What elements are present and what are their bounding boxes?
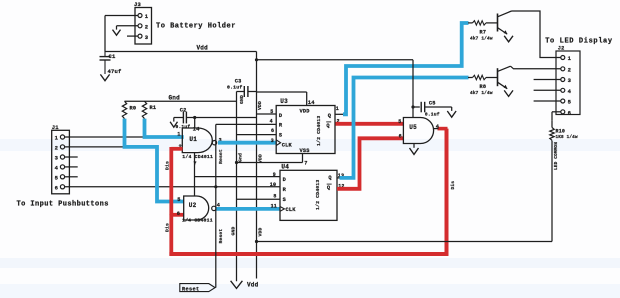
wire J3 pin3 stub <box>127 35 138 37</box>
wire U4 Q stub <box>337 177 341 179</box>
connector J3 <box>134 1 152 44</box>
wire J1 pin5 stub <box>65 176 78 178</box>
pin 14 label U3 <box>308 99 316 106</box>
wire Vdd to U5 top <box>412 60 414 118</box>
svg-text:3: 3 <box>568 77 572 84</box>
svg-text:D: D <box>279 113 282 119</box>
svg-text:VDD: VDD <box>257 101 263 110</box>
svg-text:R1: R1 <box>150 105 157 111</box>
svg-text:2: 2 <box>568 67 572 74</box>
wire J1 pin3 stub <box>65 156 78 158</box>
net label VDD rotated mid <box>258 154 264 163</box>
svg-text:Gnd: Gnd <box>169 95 181 102</box>
svg-text:5: 5 <box>177 197 180 203</box>
pin 10 label U4 R <box>270 182 276 188</box>
wire red Dis vertical <box>169 147 173 256</box>
wire U1 pin14 <box>193 118 201 133</box>
svg-text:0.1uf: 0.1uf <box>227 85 242 91</box>
net label Dis rotated at U5 output <box>450 181 456 190</box>
svg-text:CLK: CLK <box>286 207 297 213</box>
svg-text:11: 11 <box>271 204 277 210</box>
svg-text:To Input Pushbuttons: To Input Pushbuttons <box>17 201 109 209</box>
svg-text:R7: R7 <box>480 29 487 35</box>
svg-text:VSS: VSS <box>300 148 311 154</box>
resistor R7 <box>468 21 498 42</box>
junction C2 U1pin14 <box>193 116 196 119</box>
wire VDD vertical <box>256 52 258 279</box>
ground below U5 <box>410 148 419 154</box>
svg-text:Dis: Dis <box>165 161 171 170</box>
svg-text:Dis: Dis <box>165 223 171 232</box>
svg-text:Reset: Reset <box>182 286 200 292</box>
svg-text:1/2 CD4013: 1/2 CD4013 <box>315 180 321 210</box>
wire LED COMMON <box>257 141 553 242</box>
label To Input Pushbuttons <box>17 201 109 209</box>
wire cyan R0 to U2 input 5 <box>125 119 184 202</box>
pin 13 label U4 Q <box>338 173 344 179</box>
svg-text:To Battery Holder: To Battery Holder <box>156 23 236 31</box>
resistor R8 <box>468 75 498 96</box>
svg-text:4: 4 <box>568 88 572 95</box>
pin 9 label U4 D <box>273 172 276 178</box>
wire red Dis U2 input6 <box>171 213 183 217</box>
svg-text:9: 9 <box>273 172 276 178</box>
svg-text:U4: U4 <box>281 163 289 170</box>
wire U4 pin9 run <box>195 176 281 178</box>
wire VDD branch to U5 <box>257 59 414 61</box>
svg-text:To LED Display: To LED Display <box>545 37 613 45</box>
net label LED COMMON rotated <box>553 142 559 170</box>
wire cyan U1 out to U3 CLK <box>218 141 276 145</box>
junction Vdd LED COMMON <box>255 240 258 243</box>
ground at C2 <box>170 122 177 127</box>
svg-text:Gnd: Gnd <box>238 153 244 162</box>
svg-text:J3: J3 <box>134 1 142 8</box>
svg-text:1: 1 <box>568 55 572 62</box>
flip-flop U3 CD4013 <box>276 98 335 154</box>
label To LED Display <box>545 37 613 45</box>
svg-text:1: 1 <box>177 131 180 137</box>
svg-text:D: D <box>283 177 286 183</box>
wire cyan U3 Q to R7 <box>343 23 469 114</box>
transistor Q2 <box>498 66 511 89</box>
net label GND rotated low <box>231 227 237 236</box>
svg-text:1: 1 <box>145 13 149 20</box>
wire U3 S pin6 stub <box>237 128 277 135</box>
svg-text:U3: U3 <box>280 98 288 105</box>
resistor R10 <box>550 121 578 141</box>
resistor R1 <box>142 101 156 118</box>
transistor Q1 <box>498 11 512 34</box>
wire J2 pin4 stub <box>534 89 561 91</box>
ground at Q2 emitter <box>504 90 513 96</box>
resistor R0 <box>122 101 136 118</box>
svg-text:Vdd: Vdd <box>197 45 209 52</box>
svg-text:R10: R10 <box>556 129 566 135</box>
capacitor C2 <box>174 107 257 129</box>
wire cyan R1 to U1 input 1 <box>145 119 184 137</box>
wire J1 pin1 to R1 <box>65 136 145 138</box>
svg-text:3: 3 <box>145 34 149 41</box>
svg-text:6: 6 <box>271 128 274 134</box>
svg-text:Reset: Reset <box>218 149 224 164</box>
svg-text:3: 3 <box>271 138 274 144</box>
svg-text:R0: R0 <box>130 105 137 111</box>
svg-text:14: 14 <box>308 99 316 106</box>
wire red U4 Qbar to U5 input6 <box>337 138 403 189</box>
wire red U3 Qbar to U5 input5 <box>336 122 404 126</box>
svg-text:6: 6 <box>399 134 402 140</box>
svg-text:2: 2 <box>55 145 59 152</box>
wire Gnd rail <box>125 100 237 102</box>
svg-text:4: 4 <box>270 119 273 125</box>
svg-text:Q: Q <box>328 113 332 119</box>
svg-text:U2: U2 <box>189 202 197 209</box>
svg-text:6: 6 <box>55 184 59 191</box>
ground at C5 <box>447 111 456 117</box>
svg-text:3: 3 <box>55 155 59 162</box>
svg-text:C2: C2 <box>180 107 187 113</box>
svg-text:6: 6 <box>177 211 180 217</box>
wire U3 VSS pin7 <box>237 154 308 167</box>
svg-text:Vdd: Vdd <box>247 281 259 288</box>
svg-text:1: 1 <box>336 106 339 112</box>
svg-text:0.1uf: 0.1uf <box>425 111 440 117</box>
svg-text:1: 1 <box>55 135 59 142</box>
svg-text:10: 10 <box>270 182 276 188</box>
gate U2 CD4011 <box>177 196 221 224</box>
svg-text:47uf: 47uf <box>108 68 123 75</box>
wire red Dis U1 input2 <box>171 147 182 151</box>
wire red U5 output vertical <box>445 129 449 256</box>
net label GND rotated top <box>239 95 245 104</box>
net label GND rotated mid <box>238 153 244 162</box>
wire U5 bottom stub <box>413 144 415 148</box>
wire U3 R pin4 to Reset <box>216 119 276 125</box>
wire Q2 collector to J2 pin2 <box>511 66 561 69</box>
wire U4 S pin8 stub <box>237 193 281 199</box>
label Vdd bottom <box>247 281 259 288</box>
net label VDD rotated top <box>257 101 263 110</box>
svg-text:8: 8 <box>273 193 276 199</box>
wire GND vertical <box>236 92 238 282</box>
net label Gnd <box>169 95 181 102</box>
pin 1 label U3 Q <box>336 106 339 112</box>
wire red Dis bottom <box>169 252 448 256</box>
net label Vdd <box>197 45 209 52</box>
svg-text:GND: GND <box>231 227 237 236</box>
wire Vdd rail <box>105 51 257 53</box>
flip-flop U4 CD4013 <box>280 163 337 220</box>
svg-text:U1: U1 <box>189 136 197 143</box>
svg-text:C1: C1 <box>109 53 117 60</box>
wire cyan U4 Q to R8 <box>340 78 469 178</box>
svg-text:C3: C3 <box>235 78 242 84</box>
ground bottom center <box>231 281 243 289</box>
wire U3 D pin5 stub <box>257 109 277 115</box>
svg-text:5: 5 <box>270 109 273 115</box>
wire J1 pin2 to R0 <box>65 146 125 148</box>
svg-text:Reset: Reset <box>218 229 224 244</box>
net label Reset rotated upper <box>218 149 224 164</box>
svg-text:C5: C5 <box>429 101 436 107</box>
wire J2 pin6 to R10 <box>552 112 561 121</box>
junction VDD branch <box>255 58 258 61</box>
pin 2 label U3 Qbar <box>337 118 340 124</box>
wire U1 pin7 to U2 <box>193 153 196 196</box>
label To Battery Holder <box>156 23 236 31</box>
connector J2 <box>556 46 580 117</box>
junction red at U2 input6 <box>169 213 173 217</box>
wire Reset vertical <box>215 124 217 287</box>
wire Q1 collector to J2 pin1 <box>512 11 561 58</box>
svg-text:5: 5 <box>398 119 401 125</box>
junction GND VSS <box>235 161 238 164</box>
svg-text:6: 6 <box>568 110 572 117</box>
capacitor C3 <box>227 78 257 97</box>
wire U3 pin 14 feed <box>257 92 307 106</box>
svg-text:4: 4 <box>55 165 59 172</box>
svg-text:7: 7 <box>193 161 196 167</box>
wire red U5 output stub <box>438 127 448 131</box>
svg-text:VDD: VDD <box>258 154 264 163</box>
svg-text:4k7 1/4w: 4k7 1/4w <box>470 36 493 41</box>
ground at J3 pin2 <box>113 30 121 36</box>
capacitor C5 <box>411 101 451 118</box>
net label VDD rotated low <box>258 228 264 237</box>
wire J3 pin2 <box>117 26 139 30</box>
flag Reset <box>180 284 215 293</box>
gate U5 CD4081 <box>398 118 440 144</box>
svg-text:14: 14 <box>193 126 201 133</box>
svg-text:J1: J1 <box>52 124 60 131</box>
svg-text:VDD: VDD <box>300 108 310 114</box>
wire cyan U2 out to U4 CLK <box>216 207 280 211</box>
svg-text:5: 5 <box>568 99 572 106</box>
net label Dis rotated upper <box>165 161 171 170</box>
svg-text:5: 5 <box>55 174 59 181</box>
wire U3 Q stub <box>335 113 344 115</box>
net label Reset rotated lower <box>218 229 224 244</box>
svg-text:2: 2 <box>145 24 149 31</box>
svg-text:1/4 CD4011: 1/4 CD4011 <box>182 218 213 224</box>
svg-text:VDD: VDD <box>258 228 264 237</box>
svg-text:LED COMMON: LED COMMON <box>553 142 559 170</box>
ground below C1 <box>100 74 109 80</box>
wire J3 pin1 to Vdd <box>105 16 138 52</box>
ground at Q1 emitter <box>504 36 513 42</box>
wire J2 pin3 stub <box>534 79 561 81</box>
gate U1 CD4011 <box>177 128 222 160</box>
svg-text:7: 7 <box>304 160 307 166</box>
wire J1 pin4 stub <box>65 166 78 168</box>
svg-text:1K8 1/4w: 1K8 1/4w <box>556 135 578 140</box>
connector J1 <box>52 124 70 194</box>
pin 11 label U4 CLK <box>271 204 277 210</box>
svg-text:R8: R8 <box>480 84 487 90</box>
wire J2 pin5 stub <box>534 100 561 102</box>
svg-text:CLK: CLK <box>282 143 293 149</box>
wire Reset net J1 pin6 to U4 pin10 <box>65 186 280 188</box>
net label Dis rotated lower <box>165 223 171 232</box>
capacitor C1 <box>100 52 123 76</box>
pin 3 label U3 CLK <box>271 138 274 144</box>
svg-text:U5: U5 <box>409 124 417 131</box>
svg-text:J2: J2 <box>558 46 565 52</box>
svg-text:4k7 1/4w: 4k7 1/4w <box>470 91 493 96</box>
junction Reset J1pin6 <box>214 185 217 188</box>
pin 12 label U4 Qbar <box>338 184 344 190</box>
svg-text:1/4 CD4011: 1/4 CD4011 <box>182 154 213 160</box>
svg-text:1/2 CD4013: 1/2 CD4013 <box>316 116 322 146</box>
svg-text:Dis: Dis <box>450 181 456 190</box>
